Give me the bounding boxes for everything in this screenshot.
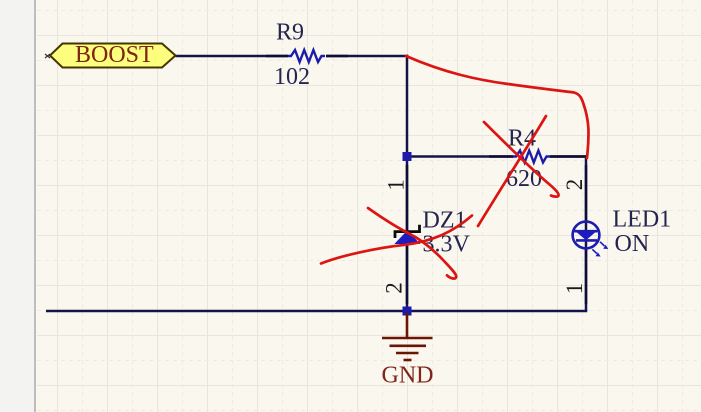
pin R9 right — [326, 55, 348, 58]
pin R4 left — [489, 155, 513, 158]
wire node to R4 — [407, 155, 513, 158]
port BOOST connect cross — [45, 54, 50, 58]
red annotation stroke X2a over DZ1 — [368, 208, 456, 279]
wire vertical from corner through DZ1 to bottom — [406, 55, 409, 311]
svg-text:BOOST: BOOST — [75, 42, 154, 68]
svg-text:3.3V: 3.3V — [423, 232, 471, 258]
port BOOST — [50, 42, 176, 68]
pin R4 right — [550, 155, 586, 158]
svg-text:R9: R9 — [276, 20, 304, 46]
pin DZ1 pin2 — [406, 243, 409, 304]
wire bottom rail — [46, 310, 587, 313]
red annotation stroke A (top hook) — [406, 56, 589, 158]
wire R9 to top corner — [326, 55, 408, 58]
pin DZ1 pin1 — [406, 165, 409, 231]
red annotation stroke X2b over DZ1 — [321, 216, 472, 264]
sheet border — [34, 0, 36, 412]
sheet left margin — [0, 0, 34, 412]
wire BOOST to R9 — [176, 55, 289, 58]
zener diode DZ1 — [395, 225, 420, 244]
junction node at R4 tap — [403, 152, 412, 161]
svg-text:DZ1: DZ1 — [423, 208, 467, 234]
pin LED1 pin1 — [585, 248, 588, 304]
svg-text:102: 102 — [274, 64, 310, 90]
pin LED1 pin2 — [585, 165, 588, 222]
svg-text:LED1: LED1 — [613, 207, 672, 233]
wire R4 to right corner — [550, 155, 587, 158]
resistor R9 — [288, 50, 325, 62]
junction node at ground rail — [403, 307, 412, 316]
red annotation stroke X1b over R4 — [478, 116, 546, 226]
wire right vertical through LED1 — [585, 155, 588, 311]
red annotation stroke X1a over R4 — [484, 122, 559, 197]
svg-text:1: 1 — [562, 283, 587, 295]
svg-text:2: 2 — [562, 179, 587, 191]
svg-text:1: 1 — [383, 179, 408, 191]
LED LED1 — [573, 222, 609, 257]
svg-text:GND: GND — [382, 363, 434, 389]
pin R9 left — [266, 55, 288, 58]
resistor R4 — [513, 151, 550, 163]
ground GND power symbol — [382, 313, 433, 360]
svg-text:ON: ON — [615, 231, 650, 257]
svg-text:2: 2 — [381, 282, 406, 294]
